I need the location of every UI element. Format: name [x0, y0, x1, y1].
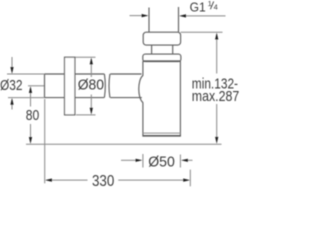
- svg-text:max.287: max.287: [192, 88, 239, 105]
- svg-text:330: 330: [92, 173, 114, 189]
- svg-text:Ø32: Ø32: [0, 77, 23, 94]
- svg-text:Ø50: Ø50: [148, 153, 175, 170]
- svg-text:4: 4: [214, 2, 218, 11]
- svg-text:Ø80: Ø80: [78, 77, 104, 94]
- svg-text:80: 80: [26, 107, 40, 124]
- svg-text:G1: G1: [190, 0, 206, 15]
